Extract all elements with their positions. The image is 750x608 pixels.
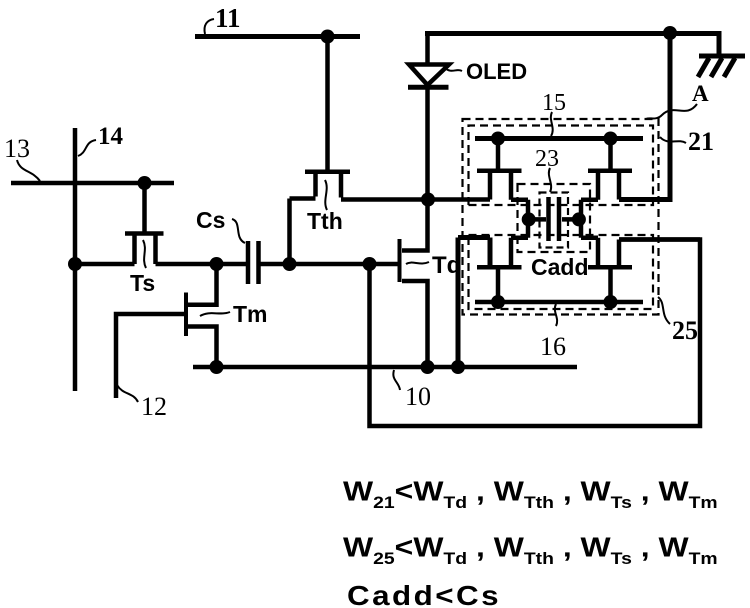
label Cadd <box>531 254 589 280</box>
formula Cadd < Cs <box>347 581 501 608</box>
wire: line 15 <box>475 136 643 141</box>
dashed box 25 inner <box>469 235 654 309</box>
svg-text:Cs: Cs <box>196 207 225 233</box>
svg-text:13: 13 <box>4 134 30 163</box>
leader squiggle for Td <box>406 262 429 264</box>
leader squiggle for Ts <box>143 240 146 268</box>
node junction line16 right <box>604 295 618 309</box>
wire: rail Ts to Cs <box>156 262 247 267</box>
ground <box>698 56 745 77</box>
label 13 <box>4 134 30 163</box>
label Td <box>432 252 461 279</box>
wire: line 16 <box>475 300 643 305</box>
wire: storage rail left segment <box>75 262 135 267</box>
leader squiggle for 11 <box>204 19 214 34</box>
transistor T25a (bottom-left in block) <box>458 219 528 367</box>
wire: feedback loop <box>370 240 701 427</box>
svg-text:Cadd: Cadd <box>531 254 589 280</box>
leader squiggle for 25 <box>658 297 670 324</box>
label Tth <box>307 208 343 234</box>
label 10 <box>405 382 431 411</box>
wire: node A vertical <box>619 34 670 200</box>
node junction line13/Ts gate <box>138 176 152 190</box>
node junction on line 11 <box>321 30 335 44</box>
transistor Tth <box>290 172 426 264</box>
leader squiggle for 21 <box>660 137 686 143</box>
label Tm <box>233 301 268 327</box>
svg-text:Tth: Tth <box>307 208 343 234</box>
svg-text:16: 16 <box>540 332 566 361</box>
wire: power line 11 <box>195 34 360 39</box>
label OLED <box>466 59 527 84</box>
leader squiggle for 12 <box>117 385 138 402</box>
node junction rail/line14 <box>68 257 82 271</box>
node junction Cadd left <box>522 212 536 226</box>
svg-text:Tm: Tm <box>233 301 268 327</box>
node junction OLED/Tth/Td drain <box>421 193 435 207</box>
wire: rail Cs to Td gate <box>259 262 398 267</box>
label 11 <box>215 3 241 33</box>
svg-text:25: 25 <box>672 316 698 345</box>
wire: Tm gate line 12 <box>116 314 186 398</box>
node junction rail/feedback <box>363 257 377 271</box>
wire: node into block <box>428 197 490 202</box>
transistor T21a (top-left in block) <box>477 139 528 220</box>
transistor Ts <box>125 183 164 264</box>
node junction line15 right <box>604 132 618 146</box>
svg-text:23: 23 <box>535 146 559 172</box>
wire: Tth gate lead from line 11 <box>325 37 330 170</box>
node junction rail10/Td <box>421 360 435 374</box>
leader squiggle for OLED <box>445 68 462 71</box>
leader squiggle for Tm <box>200 312 230 316</box>
label 16 <box>540 332 566 361</box>
label 14 <box>98 123 124 150</box>
leader squiggle for Cs <box>232 219 245 243</box>
node A junction dot <box>663 26 677 40</box>
capacitor Cs <box>248 241 259 284</box>
svg-text:14: 14 <box>98 123 124 150</box>
svg-text:15: 15 <box>542 90 566 116</box>
dashed box 23 outer <box>518 184 591 252</box>
label 12 <box>141 392 167 421</box>
transistor Tm <box>186 264 217 367</box>
svg-text:12: 12 <box>141 392 167 421</box>
dashed box 23 inner <box>540 193 569 248</box>
wire: bottom rail 10 <box>193 365 577 370</box>
node junction rail/Tm <box>210 257 224 271</box>
wire: top-right supply line to ground <box>425 34 719 56</box>
svg-text:11: 11 <box>215 3 241 33</box>
label 23 <box>535 146 559 172</box>
svg-text:A: A <box>692 81 709 106</box>
label 25 <box>672 316 698 345</box>
capacitor Cadd <box>529 197 579 241</box>
leader squiggle for 23 <box>549 168 551 192</box>
node junction rail10/block <box>451 360 465 374</box>
wire: line 13 <box>11 181 174 186</box>
transistor Td <box>400 201 428 367</box>
node junction rail/Tth source <box>283 257 297 271</box>
node junction line15 left <box>491 132 505 146</box>
svg-text:10: 10 <box>405 382 431 411</box>
leader squiggle for 10 <box>393 370 400 390</box>
formula W25 < others <box>343 532 718 567</box>
wire: line 14 <box>73 128 78 391</box>
leader squiggle for 15 <box>551 112 553 136</box>
svg-text:OLED: OLED <box>466 59 527 84</box>
leader squiggle for A <box>646 104 697 119</box>
svg-text:21: 21 <box>688 127 714 156</box>
node junction line16 left <box>491 295 505 309</box>
formula W21 < others <box>343 476 718 608</box>
svg-text:Cadd<Cs: Cadd<Cs <box>347 581 501 608</box>
label Cs <box>196 207 225 233</box>
leader squiggle for 13 <box>17 160 40 181</box>
label A <box>692 81 709 106</box>
node junction Cadd right <box>572 212 586 226</box>
dashed box outer <box>463 119 659 315</box>
label 21 <box>688 127 714 156</box>
node junction rail10/Tm <box>210 360 224 374</box>
transistor T25b (bottom-right in block) <box>581 219 700 302</box>
leader squiggle for 16 <box>555 304 557 326</box>
OLED <box>408 34 449 200</box>
label Ts <box>130 270 155 296</box>
svg-text:Ts: Ts <box>130 270 155 296</box>
transistor T21b (top-right in block) <box>581 139 632 220</box>
label 15 <box>542 90 566 116</box>
leader squiggle for 14 <box>78 140 96 156</box>
leader squiggle for Tth <box>325 180 327 210</box>
dashed box 21 inner <box>469 126 654 206</box>
